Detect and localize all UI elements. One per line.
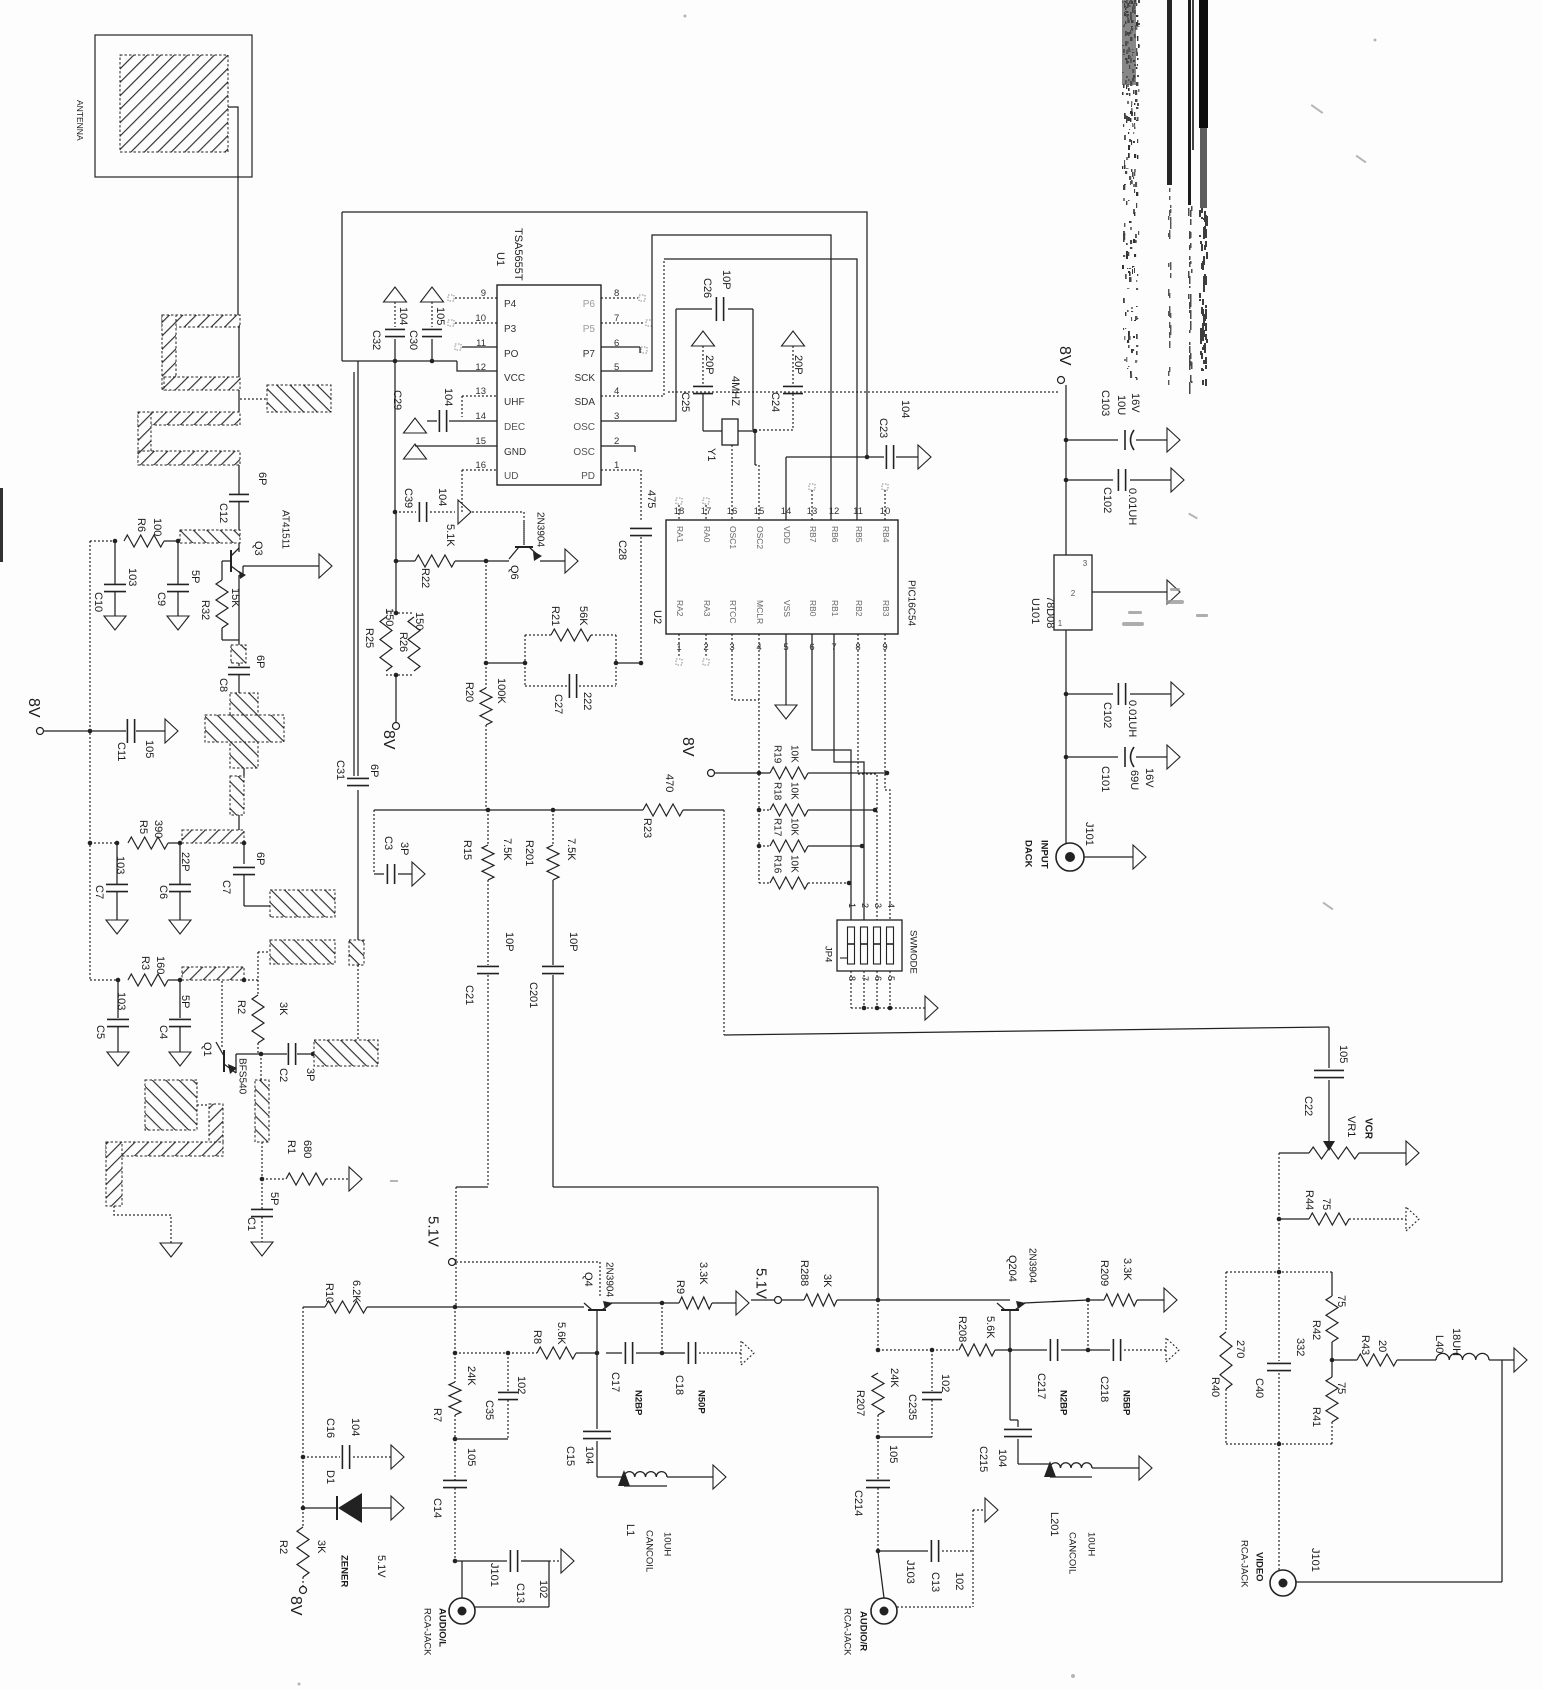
svg-text:10K: 10K	[788, 745, 799, 763]
svg-text:L201: L201	[1048, 1512, 1060, 1536]
svg-text:ANTENNA: ANTENNA	[75, 100, 85, 141]
svg-text:104: 104	[996, 1449, 1008, 1467]
svg-text:10: 10	[475, 313, 486, 324]
svg-text:R209: R209	[1098, 1260, 1110, 1286]
svg-text:C7: C7	[220, 880, 232, 894]
svg-text:C7: C7	[93, 885, 105, 899]
svg-text:1: 1	[1058, 619, 1063, 628]
svg-text:INPUT: INPUT	[1039, 840, 1050, 869]
svg-text:13: 13	[475, 386, 486, 397]
svg-text:C103: C103	[1099, 390, 1111, 416]
svg-text:150: 150	[383, 608, 395, 626]
svg-text:J101: J101	[1309, 1548, 1321, 1572]
svg-text:GND: GND	[504, 447, 526, 458]
svg-text:14: 14	[781, 506, 792, 517]
svg-text:J101: J101	[1083, 822, 1095, 846]
svg-text:C29: C29	[391, 390, 403, 410]
svg-text:75: 75	[1335, 1295, 1347, 1307]
svg-text:8V: 8V	[679, 737, 696, 757]
svg-text:C22: C22	[1302, 1096, 1314, 1116]
svg-text:BFS540: BFS540	[236, 1058, 247, 1095]
svg-text:18UH: 18UH	[1450, 1328, 1462, 1356]
svg-text:RA2: RA2	[675, 600, 685, 617]
svg-text:AUDIO/R: AUDIO/R	[858, 1611, 869, 1651]
svg-text:VDD: VDD	[782, 526, 792, 544]
svg-text:OSC1: OSC1	[728, 526, 738, 549]
svg-text:10K: 10K	[788, 855, 799, 873]
svg-text:20P: 20P	[703, 355, 715, 375]
svg-text:U1: U1	[494, 252, 506, 266]
svg-text:C235: C235	[906, 1394, 918, 1420]
svg-text:103: 103	[126, 568, 138, 586]
svg-text:102: 102	[515, 1376, 527, 1394]
svg-text:10K: 10K	[788, 818, 799, 836]
svg-text:3: 3	[873, 903, 883, 908]
svg-text:105: 105	[143, 740, 155, 758]
svg-text:104: 104	[583, 1446, 595, 1464]
svg-text:Q1: Q1	[201, 1042, 213, 1057]
svg-text:R21: R21	[549, 606, 561, 626]
svg-text:100: 100	[151, 518, 163, 536]
svg-text:C6: C6	[157, 885, 169, 899]
svg-text:PO: PO	[504, 349, 519, 360]
svg-text:N50P: N50P	[696, 1390, 707, 1414]
svg-text:DEC: DEC	[504, 422, 525, 433]
svg-text:C13: C13	[929, 1572, 941, 1592]
svg-text:C27: C27	[552, 694, 564, 714]
svg-text:10UH: 10UH	[662, 1532, 673, 1556]
svg-text:C14: C14	[431, 1498, 443, 1518]
svg-text:C5: C5	[94, 1025, 106, 1039]
svg-text:3P: 3P	[304, 1068, 316, 1081]
svg-text:10UH: 10UH	[1086, 1532, 1097, 1556]
svg-text:C17: C17	[609, 1372, 621, 1392]
svg-text:RA1: RA1	[675, 526, 685, 543]
svg-text:15: 15	[475, 436, 486, 447]
svg-text:390: 390	[152, 820, 164, 838]
svg-text:0.01UH: 0.01UH	[1126, 700, 1138, 737]
svg-text:C3: C3	[382, 836, 394, 850]
svg-text:6P: 6P	[254, 852, 266, 865]
svg-text:20: 20	[1376, 1340, 1388, 1352]
svg-text:TSA5655T: TSA5655T	[512, 228, 524, 281]
svg-text:2: 2	[1071, 589, 1076, 598]
svg-text:RB5: RB5	[854, 526, 864, 543]
svg-text:CANCOIL: CANCOIL	[644, 1530, 655, 1572]
svg-text:2N3904: 2N3904	[534, 512, 545, 547]
svg-text:16: 16	[475, 460, 486, 471]
svg-text:RB7: RB7	[808, 526, 818, 543]
svg-text:160: 160	[154, 956, 166, 974]
svg-text:C102: C102	[1101, 487, 1113, 513]
svg-text:4: 4	[614, 386, 619, 397]
svg-text:C35: C35	[483, 1400, 495, 1420]
svg-text:C32: C32	[370, 330, 382, 350]
svg-text:12: 12	[475, 362, 486, 373]
svg-text:14: 14	[475, 411, 486, 422]
svg-text:RB0: RB0	[808, 600, 818, 617]
svg-text:RCA-JACK: RCA-JACK	[1239, 1540, 1250, 1588]
svg-text:C2: C2	[277, 1068, 289, 1082]
svg-text:C13: C13	[514, 1583, 526, 1603]
svg-text:78D08: 78D08	[1044, 596, 1056, 628]
svg-text:PD: PD	[581, 471, 595, 482]
svg-text:C31: C31	[334, 760, 346, 780]
svg-text:C28: C28	[616, 540, 628, 560]
svg-text:RA3: RA3	[702, 600, 712, 617]
svg-text:8: 8	[847, 976, 857, 981]
svg-text:105: 105	[465, 1448, 477, 1466]
svg-text:680: 680	[301, 1140, 313, 1158]
svg-text:Q4: Q4	[582, 1272, 594, 1287]
svg-text:Q6: Q6	[508, 565, 520, 580]
svg-text:VSS: VSS	[782, 600, 792, 617]
svg-text:2N3904: 2N3904	[1026, 1248, 1037, 1283]
svg-text:UD: UD	[504, 471, 518, 482]
svg-text:C11: C11	[115, 742, 127, 761]
svg-text:J101: J101	[488, 1563, 500, 1587]
svg-text:R5: R5	[137, 820, 149, 834]
svg-text:3.3K: 3.3K	[697, 1262, 709, 1285]
svg-text:R3: R3	[139, 956, 151, 970]
svg-text:ZENER: ZENER	[339, 1555, 350, 1587]
svg-text:P6: P6	[583, 299, 596, 310]
svg-text:RCA-JACK: RCA-JACK	[422, 1608, 433, 1656]
svg-text:C12: C12	[217, 503, 229, 523]
svg-text:8V: 8V	[25, 698, 42, 718]
svg-text:4MHZ: 4MHZ	[729, 376, 741, 406]
svg-text:MCLR: MCLR	[755, 600, 765, 624]
svg-text:24K: 24K	[888, 1368, 900, 1388]
svg-text:270: 270	[1234, 1340, 1246, 1358]
svg-text:VCR: VCR	[1362, 1118, 1373, 1140]
svg-text:C9: C9	[155, 592, 167, 606]
svg-text:N2BP: N2BP	[1058, 1390, 1069, 1416]
svg-text:C25: C25	[679, 392, 691, 412]
svg-text:6P: 6P	[254, 655, 266, 668]
svg-text:8V: 8V	[380, 730, 397, 750]
svg-text:R16: R16	[771, 855, 782, 874]
svg-text:104: 104	[436, 488, 448, 506]
svg-text:0.01UH: 0.01UH	[1126, 488, 1138, 525]
svg-text:8: 8	[614, 288, 619, 299]
svg-text:R17: R17	[771, 818, 782, 837]
svg-text:100K: 100K	[495, 678, 507, 704]
svg-text:5.1V: 5.1V	[753, 1268, 770, 1299]
svg-text:20P: 20P	[792, 355, 804, 375]
svg-text:12: 12	[829, 506, 840, 517]
svg-text:8V: 8V	[1056, 346, 1073, 366]
svg-text:5.1V: 5.1V	[375, 1555, 387, 1578]
svg-text:10P: 10P	[567, 932, 579, 952]
svg-text:RA0: RA0	[702, 526, 712, 543]
svg-text:U2: U2	[651, 610, 663, 624]
svg-text:3.3K: 3.3K	[1121, 1258, 1133, 1281]
svg-text:6: 6	[873, 976, 883, 981]
svg-text:R19: R19	[771, 745, 782, 764]
svg-text:105: 105	[887, 1445, 899, 1463]
svg-text:104: 104	[899, 400, 911, 418]
svg-text:RB4: RB4	[881, 526, 891, 543]
svg-text:C218: C218	[1098, 1376, 1110, 1402]
svg-text:VIDEO: VIDEO	[1254, 1552, 1265, 1582]
svg-text:10K: 10K	[788, 782, 799, 800]
svg-text:470: 470	[663, 774, 675, 792]
svg-text:AT41511: AT41511	[279, 510, 290, 550]
svg-text:Q204: Q204	[1006, 1255, 1018, 1282]
svg-text:RCA-JACK: RCA-JACK	[842, 1608, 853, 1656]
svg-text:3: 3	[614, 411, 619, 422]
svg-text:RB6: RB6	[830, 526, 840, 543]
svg-text:R40: R40	[1209, 1377, 1221, 1397]
svg-text:104: 104	[397, 307, 409, 325]
svg-text:RTCC: RTCC	[728, 600, 738, 623]
svg-text:10P: 10P	[503, 932, 515, 952]
svg-text:222: 222	[581, 692, 593, 710]
svg-text:5: 5	[886, 976, 896, 981]
svg-text:3K: 3K	[315, 1540, 327, 1554]
svg-text:SCK: SCK	[574, 373, 595, 384]
svg-text:P7: P7	[583, 349, 596, 360]
svg-text:24K: 24K	[465, 1366, 477, 1386]
svg-text:C201: C201	[527, 982, 539, 1008]
svg-text:DACK: DACK	[1023, 840, 1034, 868]
svg-text:10U: 10U	[1115, 395, 1127, 415]
svg-text:105: 105	[434, 307, 446, 325]
svg-text:R41: R41	[1310, 1407, 1322, 1427]
svg-text:17: 17	[701, 506, 712, 517]
svg-text:103: 103	[115, 992, 127, 1010]
svg-text:C30: C30	[407, 330, 419, 350]
svg-text:6.2K: 6.2K	[350, 1280, 362, 1303]
svg-text:5.6K: 5.6K	[984, 1316, 996, 1339]
svg-text:102: 102	[537, 1580, 549, 1598]
svg-text:R207: R207	[854, 1390, 866, 1416]
svg-text:69U: 69U	[1128, 770, 1140, 790]
svg-text:R23: R23	[641, 818, 653, 838]
svg-text:J103: J103	[904, 1560, 916, 1584]
svg-text:UHF: UHF	[504, 397, 525, 408]
svg-text:16V: 16V	[1143, 768, 1155, 788]
svg-text:R22: R22	[419, 568, 431, 588]
svg-text:OSC: OSC	[573, 447, 595, 458]
svg-text:7.5K: 7.5K	[501, 838, 513, 861]
svg-text:102: 102	[953, 1572, 965, 1590]
svg-text:103: 103	[114, 856, 126, 874]
svg-text:6P: 6P	[256, 472, 268, 485]
svg-text:5P: 5P	[179, 995, 191, 1008]
svg-text:R25: R25	[363, 628, 375, 648]
svg-text:R8: R8	[531, 1330, 543, 1344]
svg-text:7: 7	[614, 313, 619, 324]
svg-text:104: 104	[442, 388, 454, 406]
svg-text:1: 1	[614, 460, 619, 471]
svg-text:RB2: RB2	[854, 600, 864, 617]
svg-text:R18: R18	[771, 782, 782, 801]
svg-text:2N3904: 2N3904	[603, 1262, 614, 1297]
svg-text:9: 9	[481, 288, 486, 299]
svg-text:C15: C15	[564, 1446, 576, 1466]
svg-text:5.1K: 5.1K	[444, 524, 456, 547]
svg-text:P3: P3	[504, 324, 517, 335]
svg-text:VR1: VR1	[1345, 1116, 1357, 1137]
svg-text:C23: C23	[877, 418, 889, 438]
svg-text:CANCOIL: CANCOIL	[1067, 1532, 1078, 1574]
svg-text:C101: C101	[1099, 766, 1111, 792]
svg-text:102: 102	[939, 1374, 951, 1392]
svg-text:R15: R15	[461, 840, 473, 860]
svg-text:R26: R26	[397, 632, 409, 652]
svg-text:D1: D1	[324, 1470, 336, 1484]
svg-text:R7: R7	[431, 1408, 443, 1422]
svg-text:OSC2: OSC2	[755, 526, 765, 549]
svg-text:C217: C217	[1035, 1373, 1047, 1399]
svg-text:15K: 15K	[229, 588, 241, 608]
svg-text:C102: C102	[1101, 702, 1113, 728]
svg-text:R42: R42	[1310, 1320, 1322, 1340]
svg-text:P5: P5	[583, 324, 596, 335]
svg-text:3K: 3K	[277, 1002, 289, 1016]
svg-text:75: 75	[1335, 1382, 1347, 1394]
svg-text:L1: L1	[624, 1524, 636, 1536]
svg-text:SDA: SDA	[574, 397, 595, 408]
svg-text:5.6K: 5.6K	[555, 1322, 567, 1345]
svg-text:C215: C215	[977, 1446, 989, 1472]
svg-text:Q3: Q3	[252, 541, 264, 556]
svg-text:R6: R6	[135, 518, 147, 532]
svg-text:3: 3	[1083, 559, 1088, 568]
svg-text:4: 4	[886, 903, 896, 908]
svg-text:11: 11	[853, 506, 863, 517]
svg-text:RB1: RB1	[830, 600, 840, 617]
svg-text:AUDIO/L: AUDIO/L	[437, 1608, 448, 1647]
svg-text:R9: R9	[674, 1280, 686, 1294]
svg-text:N5BP: N5BP	[1121, 1390, 1132, 1416]
svg-text:C1: C1	[245, 1217, 257, 1231]
svg-text:R20: R20	[463, 682, 475, 702]
svg-text:C214: C214	[852, 1490, 864, 1516]
svg-text:L40: L40	[1433, 1335, 1445, 1353]
svg-text:U101: U101	[1029, 598, 1041, 624]
svg-text:P4: P4	[504, 299, 517, 310]
svg-text:SWMODE: SWMODE	[908, 930, 919, 974]
svg-text:C21: C21	[463, 985, 475, 1005]
svg-text:C18: C18	[673, 1375, 685, 1395]
svg-text:56K: 56K	[577, 606, 589, 626]
svg-text:R201: R201	[523, 840, 535, 866]
svg-text:332: 332	[1294, 1338, 1306, 1356]
svg-text:C24: C24	[769, 392, 781, 412]
svg-text:R288: R288	[798, 1260, 810, 1286]
svg-text:C39: C39	[402, 488, 414, 508]
svg-text:JP4: JP4	[823, 946, 834, 962]
svg-text:16V: 16V	[1129, 393, 1141, 413]
svg-text:R208: R208	[956, 1316, 968, 1342]
svg-text:7: 7	[860, 976, 870, 981]
svg-text:18: 18	[674, 506, 685, 517]
svg-text:104: 104	[349, 1418, 361, 1436]
svg-text:R44: R44	[1303, 1190, 1315, 1210]
svg-text:150: 150	[413, 612, 425, 630]
svg-text:1: 1	[847, 903, 857, 908]
svg-text:3P: 3P	[398, 842, 410, 855]
svg-text:22P: 22P	[179, 852, 191, 872]
svg-text:R43: R43	[1359, 1335, 1371, 1355]
svg-text:5P: 5P	[189, 570, 201, 583]
svg-text:5.1V: 5.1V	[425, 1216, 442, 1247]
svg-text:PIC16C54: PIC16C54	[905, 580, 916, 627]
svg-text:R2: R2	[235, 1000, 247, 1014]
svg-text:N2BP: N2BP	[633, 1390, 644, 1416]
svg-text:15: 15	[754, 506, 765, 517]
svg-text:R1: R1	[285, 1140, 297, 1154]
svg-text:RB3: RB3	[881, 600, 891, 617]
svg-text:75: 75	[1320, 1198, 1332, 1210]
svg-text:R32: R32	[199, 600, 211, 620]
svg-text:7.5K: 7.5K	[565, 838, 577, 861]
svg-text:5P: 5P	[268, 1192, 280, 1205]
svg-text:C4: C4	[157, 1025, 169, 1039]
svg-text:C10: C10	[92, 592, 104, 612]
svg-text:105: 105	[1337, 1045, 1349, 1063]
svg-text:C26: C26	[701, 278, 713, 298]
svg-text:3K: 3K	[821, 1274, 833, 1288]
svg-text:2: 2	[860, 903, 870, 908]
svg-text:Y1: Y1	[705, 448, 717, 461]
svg-text:C40: C40	[1253, 1378, 1265, 1398]
svg-text:R2: R2	[277, 1540, 289, 1554]
svg-text:8V: 8V	[287, 1596, 304, 1616]
svg-text:10P: 10P	[720, 270, 732, 290]
svg-text:OSC: OSC	[573, 422, 595, 433]
svg-text:VCC: VCC	[504, 373, 525, 384]
svg-text:C8: C8	[217, 678, 229, 692]
svg-text:6P: 6P	[368, 764, 380, 777]
svg-text:R10: R10	[323, 1283, 335, 1303]
svg-text:475: 475	[645, 490, 657, 508]
svg-text:16: 16	[727, 506, 738, 517]
svg-text:C16: C16	[324, 1418, 336, 1438]
svg-text:2: 2	[614, 436, 619, 447]
